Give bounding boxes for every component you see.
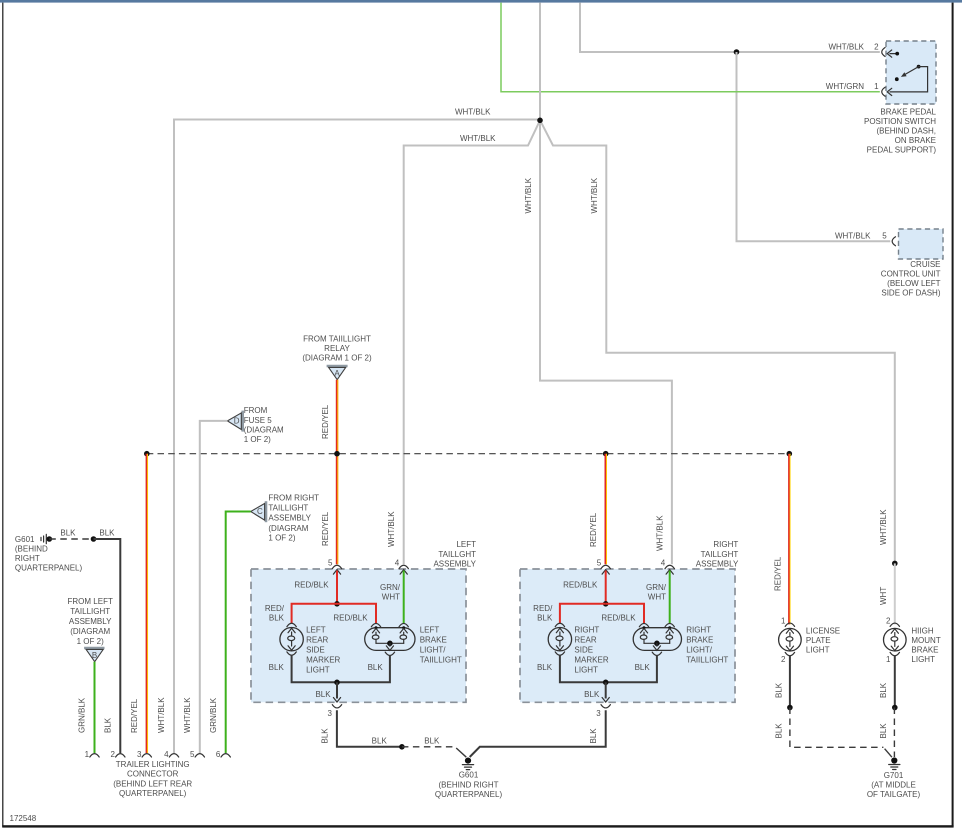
svg-text:FROM LEFT: FROM LEFT [68, 597, 113, 606]
svg-text:CONTROL UNIT: CONTROL UNIT [881, 270, 941, 279]
wire BLK from license plate light pin 2 [789, 656, 791, 708]
svg-text:HIIGH: HIIGH [911, 627, 933, 636]
pin 5 connector of cruise control unit [892, 237, 895, 246]
svg-text:A: A [334, 369, 340, 378]
node BLK splice at G601 [399, 744, 405, 750]
wire RED/YEL down to trailer connector pin 3 [146, 454, 148, 753]
svg-text:TAILLGHT: TAILLGHT [438, 550, 476, 559]
wire RED/YEL from triangle A to left taillight assembly pin 5 [336, 380, 338, 565]
svg-text:1: 1 [874, 82, 879, 91]
node dashed bus left end [144, 451, 150, 457]
svg-text:BLK: BLK [99, 528, 115, 537]
node brake bulb common [654, 641, 660, 647]
svg-text:BLK: BLK [879, 723, 888, 739]
wire RED/BLK from pin 5 to junction [336, 571, 338, 604]
svg-text:BLK: BLK [537, 614, 553, 623]
connector triangle D [241, 411, 244, 432]
wire GRN/WHT from pin 4 to brake bulb right filament [669, 571, 671, 624]
svg-text:REAR: REAR [306, 636, 328, 645]
svg-text:1: 1 [85, 750, 90, 759]
wire WHT/BLK from page top to brake pedal position switch pin 2 [580, 3, 880, 52]
svg-text:BLK: BLK [589, 728, 598, 744]
svg-text:TAILLGHT: TAILLGHT [701, 550, 739, 559]
node RED/BLK junction [334, 601, 340, 607]
node brake bulb common [387, 641, 393, 647]
svg-text:G601: G601 [459, 771, 479, 780]
svg-text:WHT/BLK: WHT/BLK [157, 697, 166, 733]
svg-text:WHT: WHT [648, 593, 666, 602]
wire BLK dashed from license light to G701 [790, 708, 884, 748]
svg-text:RED/BLK: RED/BLK [333, 614, 368, 623]
svg-text:4: 4 [395, 558, 400, 567]
svg-text:RED/YEL: RED/YEL [321, 511, 330, 546]
svg-text:GRN/BLK: GRN/BLK [78, 697, 87, 733]
svg-text:TAIILLIGHT: TAIILLIGHT [420, 656, 462, 665]
svg-text:D: D [234, 417, 240, 426]
svg-text:WHT/BLK: WHT/BLK [387, 511, 396, 547]
svg-text:LEFT: LEFT [420, 626, 440, 635]
svg-text:LIGHT: LIGHT [806, 646, 830, 655]
wire RED/BLK to side marker bulb [560, 604, 606, 623]
svg-text:CRUISE: CRUISE [910, 260, 940, 269]
svg-text:4: 4 [164, 750, 169, 759]
switch contact and movable arm [895, 77, 899, 81]
node dashed bus at RED/YEL taillight feed [334, 451, 340, 457]
svg-text:(DIAGRAM: (DIAGRAM [244, 426, 284, 435]
svg-text:BLK: BLK [774, 682, 783, 698]
svg-text:GRN/: GRN/ [646, 583, 667, 592]
svg-text:2: 2 [886, 617, 891, 626]
svg-text:QUARTERPANEL): QUARTERPANEL) [15, 563, 83, 572]
svg-text:SIDE OF DASH): SIDE OF DASH) [881, 289, 940, 298]
svg-text:BRAKE: BRAKE [911, 646, 938, 655]
svg-text:WHT/BLK: WHT/BLK [879, 509, 888, 545]
connector triangle C [265, 501, 268, 522]
svg-text:LIGHT: LIGHT [306, 666, 330, 675]
svg-text:BLK: BLK [635, 663, 651, 672]
svg-text:BLK: BLK [269, 614, 285, 623]
wire WHT to high mount brake light pin 2 [894, 563, 896, 624]
wire BLK to trailer connector pin 2 [94, 539, 121, 753]
svg-text:4: 4 [661, 558, 666, 567]
svg-text:RED/YEL: RED/YEL [589, 512, 598, 547]
wire BLK from right assembly pin 3 to G601 [470, 710, 606, 757]
svg-text:5: 5 [190, 750, 195, 759]
svg-text:LEFT: LEFT [306, 626, 326, 635]
svg-text:ON BRAKE: ON BRAKE [895, 136, 936, 145]
svg-text:TAILLIGHT: TAILLIGHT [268, 504, 308, 513]
svg-text:TAILLIGHT: TAILLIGHT [70, 607, 110, 616]
wire BLK dashed into G601 [402, 746, 455, 748]
svg-text:RED/BLK: RED/BLK [294, 581, 329, 590]
trailer connector pin 1 [90, 754, 99, 757]
wire GRN/BLK from triangle B to trailer connector pin 1 [94, 662, 96, 753]
svg-text:WHT/BLK: WHT/BLK [524, 177, 533, 213]
wire WHT/BLK from trailer connector pin 4 up and right to center junction [174, 120, 540, 754]
pin 2 terminal arrow inside switch [890, 53, 897, 55]
svg-text:RIGHT: RIGHT [713, 540, 738, 549]
cruise control unit box [899, 229, 944, 259]
svg-text:FUSE 5: FUSE 5 [244, 416, 273, 425]
svg-text:(BEHIND LEFT REAR: (BEHIND LEFT REAR [113, 779, 192, 788]
svg-text:ASSEMBLY: ASSEMBLY [69, 617, 112, 626]
svg-text:BLK: BLK [372, 736, 388, 745]
svg-text:BLK: BLK [269, 663, 285, 672]
svg-text:BRAKE: BRAKE [420, 636, 447, 645]
svg-text:BLK: BLK [104, 717, 113, 733]
svg-text:BLK: BLK [320, 728, 329, 744]
svg-text:5: 5 [328, 558, 333, 567]
svg-text:5: 5 [597, 558, 602, 567]
node center junction of WHT/BLK wires [537, 118, 543, 124]
trailer connector pin 2 [116, 754, 125, 757]
node splice high mount BLK [892, 705, 898, 711]
svg-text:C: C [257, 507, 263, 516]
wire RED/BLK to side marker bulb [292, 604, 337, 623]
svg-text:(DIAGRAM 1 OF 2): (DIAGRAM 1 OF 2) [302, 353, 372, 362]
wire BLK from brake bulb to ground junction [337, 655, 390, 682]
wire RED/BLK to brake bulb left filament [337, 604, 376, 623]
node BLK ground junction [603, 680, 609, 686]
trailer connector pin 5 [195, 754, 204, 757]
svg-text:LEFT: LEFT [456, 540, 476, 549]
svg-text:TAIILLIGHT: TAIILLIGHT [686, 656, 728, 665]
svg-text:(BEHIND DASH,: (BEHIND DASH, [876, 126, 936, 135]
connector triangle A [327, 365, 348, 368]
svg-text:WHT/BLK: WHT/BLK [183, 697, 192, 733]
wire WHT/BLK from triangle D to trailer connector pin 5 [200, 421, 228, 753]
svg-text:WHT/GRN: WHT/GRN [826, 82, 864, 91]
pin 2 connector of brake pedal position switch [882, 48, 885, 57]
svg-text:MARKER: MARKER [574, 656, 608, 665]
svg-text:172548: 172548 [10, 814, 37, 823]
svg-text:LIGHT: LIGHT [574, 666, 598, 675]
wire WHT/BLK from center junction down to left taillight assembly pin 4 [404, 121, 540, 564]
svg-text:3: 3 [137, 750, 142, 759]
wire GRN/BLK from triangle C to trailer connector pin 6 [226, 512, 251, 754]
svg-text:(DIAGRAM: (DIAGRAM [268, 524, 308, 533]
svg-text:BRAKE: BRAKE [686, 636, 713, 645]
pin 3 of left assembly [332, 705, 341, 708]
svg-text:6: 6 [216, 750, 221, 759]
svg-text:BLK: BLK [537, 663, 553, 672]
wire GRN/WHT from pin 4 to brake bulb right filament [403, 571, 405, 624]
svg-text:GRN/BLK: GRN/BLK [209, 697, 218, 733]
wire BLK from marker bulb to ground junction [292, 655, 337, 682]
svg-text:PEDAL SUPPORT): PEDAL SUPPORT) [867, 145, 937, 154]
svg-text:(DIAGRAM: (DIAGRAM [70, 627, 110, 636]
svg-text:FROM RIGHT: FROM RIGHT [268, 494, 319, 503]
svg-text:WHT/BLK: WHT/BLK [460, 134, 496, 143]
svg-text:WHT/BLK: WHT/BLK [835, 232, 871, 241]
node dashed bus right end [787, 451, 793, 457]
svg-text:LIGHT: LIGHT [911, 655, 935, 664]
svg-text:BLK: BLK [368, 663, 384, 672]
svg-text:PLATE: PLATE [806, 636, 831, 645]
wire BLK dashed from high mount light to G701 [893, 708, 895, 758]
svg-text:(BEHIND RIGHT: (BEHIND RIGHT [439, 780, 499, 789]
trailer connector pin 4 [169, 754, 178, 757]
svg-text:(BEHIND: (BEHIND [15, 544, 48, 553]
node splice on brake switch WHT/BLK wire [734, 49, 740, 55]
svg-text:MARKER: MARKER [306, 656, 340, 665]
svg-text:LICENSE: LICENSE [806, 627, 840, 636]
bulb right brake light/taillight [639, 623, 648, 626]
bulb left rear side marker light [287, 623, 296, 626]
svg-text:1: 1 [886, 655, 891, 664]
svg-text:2: 2 [781, 655, 786, 664]
svg-text:QUARTERPANEL): QUARTERPANEL) [119, 789, 187, 798]
svg-text:BLK: BLK [879, 682, 888, 698]
svg-text:WHT/BLK: WHT/BLK [828, 42, 864, 51]
node BLK splice [91, 536, 97, 542]
svg-text:POSITION SWITCH: POSITION SWITCH [864, 117, 936, 126]
pin 3 of right assembly [601, 705, 610, 708]
svg-text:BLK: BLK [424, 736, 440, 745]
svg-text:RED/YEL: RED/YEL [130, 698, 139, 733]
svg-text:BLK: BLK [60, 528, 76, 537]
svg-text:RELAY: RELAY [324, 344, 350, 353]
trailer connector pin 6 [221, 754, 230, 757]
svg-text:FROM TAIILLIGHT: FROM TAIILLIGHT [303, 335, 371, 344]
svg-text:ASSEMBLY: ASSEMBLY [696, 560, 739, 569]
svg-text:RED/BLK: RED/BLK [563, 581, 598, 590]
wire BLK down to pin 3 [605, 682, 607, 698]
svg-text:2: 2 [110, 750, 115, 759]
svg-text:LIGHT/: LIGHT/ [420, 646, 447, 655]
svg-text:(BELOW LEFT: (BELOW LEFT [887, 279, 940, 288]
wire RED/BLK to brake bulb left filament [606, 604, 644, 623]
wire RED/BLK from pin 5 to junction [605, 571, 607, 604]
svg-text:LIGHT/: LIGHT/ [686, 646, 713, 655]
svg-text:WHT/BLK: WHT/BLK [590, 177, 599, 213]
svg-text:BLK: BLK [315, 690, 331, 699]
svg-text:G601: G601 [15, 535, 35, 544]
svg-text:RED/YEL: RED/YEL [321, 404, 330, 439]
svg-text:RED/BLK: RED/BLK [601, 614, 636, 623]
left taillight assembly box [251, 569, 466, 702]
svg-text:RIGHT: RIGHT [686, 626, 711, 635]
node dashed bus at right taillight feed [603, 451, 609, 457]
wire WHT/BLK branch to high mount brake light [540, 121, 894, 561]
brake pedal position switch box [886, 41, 936, 104]
wire WHT/BLK down to cruise control unit pin 5 [737, 52, 891, 241]
svg-text:1: 1 [781, 617, 786, 626]
svg-text:QUARTERPANEL): QUARTERPANEL) [435, 790, 503, 799]
svg-text:ASSEMBLY: ASSEMBLY [268, 514, 311, 523]
wire BLK from left assembly pin 3 to G601 [337, 710, 402, 747]
bulb left brake light/taillight [371, 623, 380, 626]
svg-text:3: 3 [328, 709, 333, 718]
node G601 left ground [47, 536, 53, 542]
svg-text:RIGHT: RIGHT [574, 626, 599, 635]
svg-text:G701: G701 [884, 771, 904, 780]
svg-text:5: 5 [882, 232, 887, 241]
svg-text:BLK: BLK [584, 690, 600, 699]
svg-text:WHT/BLK: WHT/BLK [455, 107, 491, 116]
svg-text:BLK: BLK [774, 723, 783, 739]
node splice license BLK [787, 705, 793, 711]
svg-text:SIDE: SIDE [574, 646, 593, 655]
node BLK ground junction [334, 680, 340, 686]
wire BLK from brake bulb to ground junction [606, 655, 657, 682]
svg-text:TRAILER LIGHTING: TRAILER LIGHTING [116, 760, 190, 769]
svg-text:RED/: RED/ [533, 604, 553, 613]
svg-text:1 OF 2): 1 OF 2) [77, 637, 104, 646]
connector triangle B [84, 647, 104, 650]
svg-text:ASSEMBLY: ASSEMBLY [433, 560, 476, 569]
svg-text:WHT: WHT [879, 587, 888, 605]
svg-text:BRAKE PEDAL: BRAKE PEDAL [880, 107, 936, 116]
trailer connector pin 3 [142, 754, 151, 757]
svg-text:(AT MIDDLE: (AT MIDDLE [871, 781, 916, 790]
svg-text:SIDE: SIDE [306, 646, 325, 655]
wire RED/YEL down to right taillight assembly pin 5 [605, 454, 607, 565]
ground G601 bottom [465, 758, 471, 764]
svg-text:B: B [92, 651, 97, 660]
wire BLK dashed from G601 [49, 538, 93, 540]
svg-text:REAR: REAR [574, 636, 596, 645]
svg-text:RED/: RED/ [265, 604, 285, 613]
ground G601 left symbol [45, 534, 47, 543]
wire WHT/BLK main vertical, to right taillight assembly pin 4 [540, 3, 672, 565]
node splice WHT/BLK to WHT above high mount brake light [892, 561, 898, 567]
switch internal path to pin 1 [890, 67, 928, 92]
svg-text:3: 3 [596, 709, 601, 718]
pin 1 connector of brake pedal position switch [882, 87, 885, 96]
right taillight assembly box [520, 569, 735, 702]
svg-text:1 OF 2): 1 OF 2) [268, 533, 295, 542]
svg-text:CONNECTOR: CONNECTOR [127, 770, 179, 779]
svg-text:WHT/BLK: WHT/BLK [655, 515, 664, 551]
wire RED/YEL dashed bus [147, 453, 790, 455]
wire BLK from high mount brake light pin 1 [894, 656, 896, 708]
svg-text:WHT: WHT [382, 593, 400, 602]
svg-text:FROM: FROM [244, 406, 268, 415]
ground G701 [891, 757, 897, 763]
wire BLK down to pin 3 [336, 682, 338, 698]
svg-text:RIGHT: RIGHT [15, 554, 40, 563]
wire WHT/GRN from page top to brake pedal position switch pin 1 [501, 3, 880, 92]
wire RED/YEL down to license plate light pin 1 [788, 454, 790, 625]
svg-text:MOUNT: MOUNT [911, 636, 940, 645]
node RED/BLK junction [603, 601, 609, 607]
wire BLK from marker bulb to ground junction [560, 655, 606, 682]
svg-text:2: 2 [874, 42, 879, 51]
svg-text:1 OF 2): 1 OF 2) [244, 435, 271, 444]
svg-text:RED/YEL: RED/YEL [774, 556, 783, 591]
svg-text:GRN/: GRN/ [380, 583, 401, 592]
svg-text:OF TAILGATE): OF TAILGATE) [867, 790, 921, 799]
bulb right rear side marker light [555, 623, 564, 626]
